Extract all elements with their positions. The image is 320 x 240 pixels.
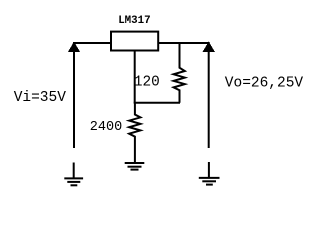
wire output top right (LM317 output pin to Vo node) xyxy=(158,42,210,44)
svg-text:2400: 2400 xyxy=(90,120,122,135)
wire right vertical (Vo node down) xyxy=(208,42,210,148)
wire left vertical (Vi node down) xyxy=(73,42,75,148)
resistor R 2400 xyxy=(129,103,140,163)
svg-text:Vo=26,25V: Vo=26,25V xyxy=(225,76,304,92)
svg-text:120: 120 xyxy=(134,75,160,91)
regulator U1 LM317 body xyxy=(111,32,158,51)
node Vo arrow (up) xyxy=(203,42,215,52)
svg-text:LM317: LM317 xyxy=(118,15,150,27)
wire input top left (Vi node to LM317 input pin) xyxy=(73,42,111,44)
ground middle xyxy=(125,163,145,170)
node Vi arrow (up) xyxy=(68,42,80,52)
wire horizontal ADJ to R1 bottom xyxy=(134,102,180,104)
svg-text:Vi=35V: Vi=35V xyxy=(14,90,67,106)
resistor R 120 xyxy=(174,43,185,103)
ground right xyxy=(199,162,220,185)
ground left xyxy=(64,163,83,186)
wire ADJ pin vertical from box bottom xyxy=(134,52,136,103)
